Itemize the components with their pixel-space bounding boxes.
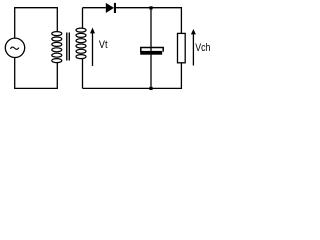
svg-text:Vt: Vt — [99, 39, 108, 51]
svg-text:Vch: Vch — [195, 42, 210, 54]
